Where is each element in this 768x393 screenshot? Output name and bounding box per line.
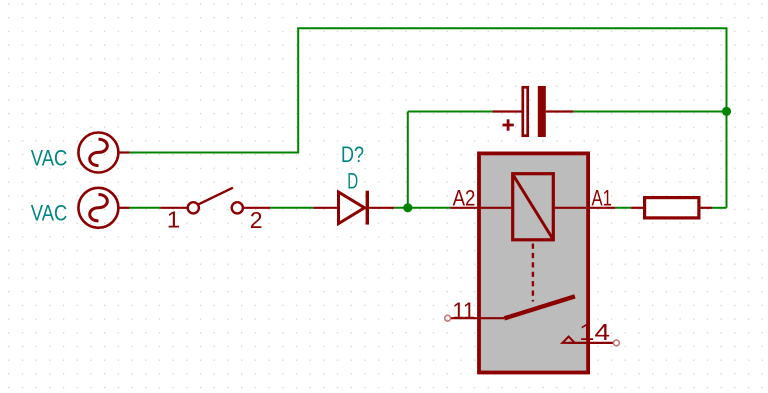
junction node B — [722, 107, 731, 116]
svg-text:2: 2 — [250, 207, 263, 233]
svg-text:14: 14 — [579, 319, 610, 345]
relay internal lead A2 side — [481, 207, 511, 209]
wire resistor to corner — [712, 207, 727, 209]
capacitor C1 polarized — [492, 86, 573, 137]
pin 14 — [562, 337, 619, 346]
svg-text:D?: D? — [341, 142, 364, 167]
relay actuator dashed line — [532, 244, 534, 302]
pin 11 — [445, 315, 505, 321]
svg-text:A1: A1 — [592, 186, 612, 211]
wire capacitor to right — [573, 111, 726, 113]
junction node A — [403, 203, 412, 212]
wire diode to A2 — [394, 207, 450, 209]
wire to capacitor — [408, 111, 493, 113]
svg-text:D: D — [347, 169, 358, 194]
voltage source V1 VAC — [78, 133, 129, 173]
wire A1 to resistor — [615, 207, 631, 209]
plus sign of C1 — [503, 119, 514, 130]
relay contact lever — [504, 296, 575, 318]
wire VAC2 to switch — [130, 207, 161, 209]
svg-text:A2: A2 — [453, 185, 476, 210]
svg-text:11: 11 — [452, 298, 475, 324]
wire switch to diode — [270, 207, 313, 209]
relay coil diagonal — [514, 176, 553, 239]
pin A1 — [590, 207, 615, 209]
relay internal lead A1 side — [555, 207, 586, 209]
relay K1 body — [479, 153, 588, 372]
resistor R1 — [631, 198, 712, 218]
voltage source V2 VAC — [78, 188, 129, 228]
switch SW1 — [160, 188, 270, 214]
svg-text:VAC: VAC — [31, 201, 68, 226]
relay coil rectangle — [513, 174, 554, 240]
pin A2 — [451, 207, 478, 209]
wire node up — [407, 112, 409, 208]
diode D1 — [313, 191, 394, 225]
svg-text:1: 1 — [167, 207, 180, 233]
svg-text:VAC: VAC — [31, 145, 68, 170]
wire VAC1 to corner — [130, 28, 727, 208]
